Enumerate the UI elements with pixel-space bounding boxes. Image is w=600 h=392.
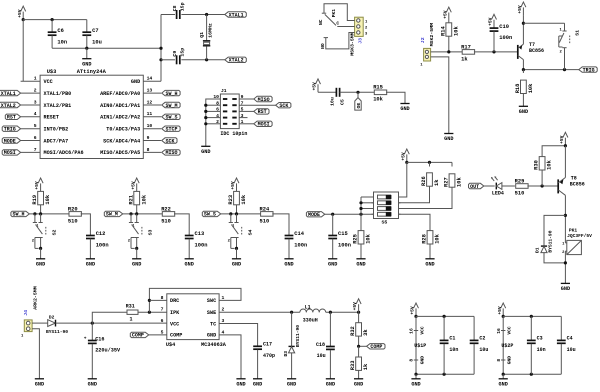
svg-text:510: 510 [260, 218, 270, 224]
svg-text:R22: R22 [161, 206, 171, 212]
svg-text:+5V: +5V [488, 17, 494, 26]
power +5V arrow [352, 299, 361, 312]
wire [174, 214, 189, 235]
wire [32, 322, 48, 324]
svg-text:10k: 10k [366, 233, 372, 243]
node MISO flag [254, 96, 272, 103]
svg-text:R28: R28 [422, 234, 428, 244]
svg-text:R21: R21 [128, 195, 134, 205]
svg-text:100n: 100n [338, 243, 351, 249]
svg-text:C8: C8 [172, 5, 178, 11]
svg-text:+5V: +5V [352, 302, 358, 311]
relay contact PK1 [318, 9, 339, 49]
svg-text:10n: 10n [57, 39, 67, 45]
svg-text:330uH: 330uH [303, 317, 318, 323]
svg-text:J1: J1 [221, 88, 227, 94]
wire [221, 212, 262, 215]
wire J1 left bus [204, 99, 220, 146]
svg-text:+5V: +5V [130, 181, 136, 190]
svg-text:10k: 10k [241, 194, 247, 204]
node MOSI flag [2, 150, 20, 157]
svg-text:XTAL1/PB0: XTAL1/PB0 [44, 91, 72, 97]
ground [185, 259, 194, 268]
resistor R31 [92, 303, 167, 323]
node OUT flag [469, 183, 484, 190]
svg-text:4: 4 [34, 111, 37, 117]
svg-text:MISO: MISO [166, 150, 178, 156]
svg-text:BC856: BC856 [570, 181, 585, 187]
svg-text:RST: RST [7, 115, 16, 121]
wire [239, 104, 275, 106]
svg-text:10k: 10k [141, 194, 147, 204]
svg-text:MISO/ADC5/PA5: MISO/ADC5/PA5 [100, 150, 140, 156]
svg-text:BYS11-90: BYS11-90 [295, 325, 301, 347]
svg-text:COMP: COMP [170, 333, 182, 339]
ground [253, 379, 262, 388]
ground [354, 379, 363, 388]
svg-text:IPK: IPK [170, 310, 180, 316]
resistor R24 [260, 206, 274, 224]
svg-text:C15: C15 [338, 231, 348, 237]
connector J3 MSK3-5MM [350, 17, 368, 56]
connector J4 ARK2-5MM [21, 286, 38, 338]
resistor R19 [32, 191, 51, 214]
svg-text:R19: R19 [32, 195, 38, 205]
wire [52, 47, 161, 50]
wire [484, 185, 495, 187]
ground [35, 379, 44, 388]
wire [474, 50, 518, 53]
ground [561, 283, 570, 292]
capacitor C17 [253, 342, 275, 379]
svg-text:SW_S: SW_S [166, 115, 178, 121]
svg-text:SW_H: SW_H [13, 212, 25, 218]
svg-text:10k: 10k [547, 159, 553, 169]
node RST flag [254, 109, 269, 116]
svg-text:VCC: VCC [170, 321, 179, 327]
resistor R23 [228, 191, 247, 214]
svg-text:GND: GND [132, 261, 141, 267]
svg-text:100n: 100n [96, 243, 109, 249]
svg-text:IDC 10pin: IDC 10pin [220, 131, 247, 137]
svg-text:1k: 1k [461, 56, 468, 62]
svg-text:GND: GND [284, 261, 293, 267]
capacitor C16 [84, 323, 121, 379]
node OE flag [355, 92, 362, 110]
svg-text:SW_S: SW_S [204, 212, 216, 218]
wire [81, 214, 91, 235]
svg-text:SW_M: SW_M [106, 212, 118, 218]
svg-text:U$2P: U$2P [501, 343, 513, 349]
svg-text:GND: GND [207, 333, 216, 339]
ground [86, 259, 95, 268]
svg-text:10u: 10u [317, 353, 326, 359]
node MODE flag [2, 138, 20, 145]
svg-text:AREF/ADC0/PA0: AREF/ADC0/PA0 [100, 91, 140, 97]
switch S1 [559, 23, 581, 69]
svg-text:C18: C18 [316, 342, 325, 348]
wire [523, 22, 564, 24]
svg-text:GND: GND [36, 261, 45, 267]
svg-text:MODE: MODE [4, 138, 16, 144]
svg-text:GND: GND [411, 381, 420, 387]
svg-text:LED4: LED4 [492, 190, 504, 196]
svg-text:JQC3FF/5V: JQC3FF/5V [567, 233, 592, 239]
svg-text:+5V: +5V [497, 306, 503, 315]
svg-text:10k: 10k [528, 83, 534, 93]
relay coil PK1 [562, 227, 592, 255]
wire [564, 214, 567, 243]
svg-text:220u/35V: 220u/35V [95, 348, 121, 354]
ground [519, 106, 528, 115]
svg-text:C6: C6 [57, 28, 63, 34]
svg-text:OE: OE [356, 103, 362, 109]
wire [149, 299, 166, 301]
svg-text:TRIG: TRIG [4, 127, 16, 133]
svg-text:RESET: RESET [44, 115, 59, 121]
wire [272, 214, 289, 235]
capacitor C5 [330, 88, 346, 106]
connector J2 MSK2-5MM [420, 23, 435, 68]
capacitor C4 [557, 316, 576, 374]
svg-text:C17: C17 [263, 342, 272, 348]
capacitor C9 [172, 48, 186, 65]
svg-text:+5V: +5V [17, 9, 23, 18]
svg-text:PK1: PK1 [331, 9, 337, 18]
node SCK flag [162, 138, 177, 145]
wire S5 left bus [359, 197, 373, 214]
power +5V arrow [497, 303, 506, 318]
svg-text:C10: C10 [499, 24, 509, 30]
svg-text:BYS11-90: BYS11-90 [547, 230, 553, 252]
svg-text:U$1P: U$1P [414, 343, 426, 349]
svg-text:16: 16 [496, 328, 502, 334]
wire [326, 33, 355, 49]
svg-text:+5V: +5V [517, 5, 523, 14]
svg-text:DRC: DRC [170, 298, 179, 304]
wire [239, 98, 254, 100]
svg-text:AIN0/ADC1/PA1: AIN0/ADC1/PA1 [100, 103, 140, 109]
svg-text:J4: J4 [23, 310, 29, 316]
node STCP flag [162, 126, 180, 133]
svg-text:12: 12 [147, 99, 153, 105]
node MOSI flag [254, 121, 272, 128]
capacitor C13 [185, 231, 208, 259]
node RST flag [5, 114, 20, 121]
power +5V arrow [488, 14, 497, 27]
node SW_M flag [162, 102, 180, 109]
node COMP flag [357, 344, 385, 351]
resistor R28 [399, 214, 441, 259]
svg-text:GND: GND [82, 61, 91, 67]
wire [32, 329, 39, 379]
svg-text:15p: 15p [180, 2, 186, 11]
svg-text:GND: GND [561, 286, 570, 292]
power +5V arrow [442, 7, 451, 20]
svg-text:100n: 100n [195, 243, 208, 249]
op-amp U$2P power pins [496, 316, 514, 374]
power +5V arrow [559, 132, 568, 147]
svg-text:GND: GND [356, 261, 365, 267]
svg-text:ATtiny24A: ATtiny24A [77, 69, 107, 75]
svg-text:C13: C13 [195, 231, 205, 237]
svg-text:GND: GND [287, 381, 296, 387]
node SW_S flag [162, 114, 180, 121]
ground [287, 379, 296, 388]
svg-text:C3: C3 [537, 336, 543, 342]
svg-text:8: 8 [409, 359, 415, 362]
capacitor C18 [316, 312, 335, 379]
svg-text:5: 5 [34, 123, 37, 129]
svg-text:ARK2-5MM: ARK2-5MM [32, 286, 38, 310]
svg-text:AIN1/ADC2/PA2: AIN1/ADC2/PA2 [100, 115, 140, 121]
svg-text:C2: C2 [479, 336, 485, 342]
svg-text:SWC: SWC [207, 298, 216, 304]
svg-text:SCK/ADC4/PA4: SCK/ADC4/PA4 [103, 138, 140, 144]
node TRIG flag [579, 67, 597, 74]
svg-text:GND: GND [444, 136, 453, 142]
ground [400, 104, 409, 113]
svg-text:8: 8 [147, 147, 150, 153]
svg-text:+5V: +5V [230, 181, 236, 190]
svg-text:R26: R26 [421, 176, 427, 186]
wire [337, 26, 354, 28]
wire [136, 248, 138, 258]
svg-text:S3: S3 [148, 229, 154, 235]
svg-text:S5: S5 [382, 219, 388, 225]
svg-text:9: 9 [147, 135, 150, 141]
node XTAL2 [205, 57, 246, 64]
svg-text:MSK2-5MM: MSK2-5MM [429, 23, 435, 47]
svg-text:+5V: +5V [34, 181, 40, 190]
resistor R26 [399, 162, 441, 202]
svg-text:14: 14 [147, 76, 153, 82]
wire [386, 92, 405, 103]
node XTAL1 [205, 12, 246, 18]
svg-text:S4: S4 [248, 229, 254, 235]
svg-text:C12: C12 [96, 231, 106, 237]
svg-text:15p: 15p [180, 48, 186, 57]
wire [239, 117, 247, 119]
svg-text:10u: 10u [479, 347, 488, 353]
resistor R14 [440, 21, 459, 52]
svg-text:VCC: VCC [419, 326, 425, 335]
wire [527, 184, 557, 187]
capacitor C3 [527, 316, 546, 374]
svg-text:BC856: BC856 [529, 48, 544, 54]
svg-text:VCC: VCC [44, 79, 53, 85]
svg-text:10n: 10n [537, 347, 546, 353]
wire [40, 248, 42, 258]
wire [503, 315, 561, 318]
svg-text:XTAL2: XTAL2 [1, 103, 16, 109]
wire [522, 15, 525, 44]
svg-text:C4: C4 [567, 336, 573, 342]
svg-text:6: 6 [34, 135, 37, 141]
resistor R25 [353, 214, 372, 259]
svg-text:R24: R24 [260, 206, 270, 212]
svg-text:SW_H: SW_H [166, 91, 178, 97]
resistor R29 [515, 178, 529, 196]
svg-text:TC: TC [210, 321, 216, 327]
svg-text:+5V: +5V [312, 82, 318, 91]
ground [284, 259, 293, 268]
svg-text:10: 10 [147, 123, 153, 129]
svg-text:10k: 10k [453, 26, 459, 36]
capacitor C14 [285, 231, 308, 259]
svg-text:GND: GND [354, 381, 363, 387]
svg-text:1k: 1k [434, 179, 440, 186]
svg-text:470p: 470p [263, 353, 275, 359]
wire [407, 161, 452, 164]
svg-text:8: 8 [161, 295, 164, 301]
power +5V arrow [312, 79, 321, 92]
capacitor C6 [48, 20, 67, 49]
switch S5 DIP [372, 192, 401, 225]
svg-text:GND: GND [131, 79, 140, 85]
ground [236, 379, 245, 388]
svg-text:STCP: STCP [166, 127, 178, 133]
svg-text:R25: R25 [353, 234, 359, 244]
svg-text:3k: 3k [363, 329, 369, 336]
wire [340, 91, 375, 94]
wire DRC rail [148, 288, 241, 312]
wire [239, 123, 254, 125]
node TRIG flag [2, 126, 20, 133]
resistor R15 [373, 85, 386, 103]
resistor R32 [350, 312, 369, 346]
svg-text:BYS11-90: BYS11-90 [46, 329, 68, 335]
power +5V arrow [517, 2, 526, 15]
svg-text:10u: 10u [92, 39, 102, 45]
svg-text:NC: NC [318, 19, 324, 25]
power +5V supply arrow (top left) [17, 6, 26, 21]
svg-text:TRIG: TRIG [583, 67, 595, 73]
node MISO flag [162, 150, 180, 157]
svg-text:100n: 100n [294, 243, 307, 249]
svg-text:Q1: Q1 [199, 32, 205, 38]
node SW_H flag [162, 90, 180, 97]
svg-text:ADC7/PA7: ADC7/PA7 [44, 138, 69, 144]
svg-text:10u: 10u [567, 347, 576, 353]
node XTAL1 flag [0, 90, 21, 97]
svg-text:GND: GND [236, 381, 245, 387]
ground [82, 48, 91, 67]
svg-text:R30: R30 [534, 160, 540, 170]
svg-text:R27: R27 [444, 177, 450, 187]
resistor R30 [534, 157, 553, 186]
svg-text:C5: C5 [340, 99, 346, 105]
svg-text:R29: R29 [515, 178, 525, 184]
wire [325, 213, 374, 216]
svg-text:SWE: SWE [207, 310, 216, 316]
op-amp U3 microcontroller ATtiny24A [21, 69, 161, 158]
wire [564, 251, 567, 283]
svg-text:GND: GND [519, 109, 528, 115]
wire [414, 373, 474, 376]
svg-text:10k: 10k [45, 194, 51, 204]
svg-text:GND: GND [425, 261, 434, 267]
svg-text:10u: 10u [330, 97, 336, 106]
op-amp U$1P power pins [409, 316, 427, 374]
svg-text:J2: J2 [420, 37, 426, 43]
svg-text:+5V: +5V [559, 135, 565, 144]
node COMP flag [130, 332, 167, 339]
node XTAL2 flag [0, 102, 21, 109]
capacitor C1 [440, 316, 459, 374]
node SW_H flag [11, 211, 29, 218]
svg-text:R14: R14 [440, 26, 446, 36]
capacitor C7 [82, 20, 101, 49]
ground [328, 259, 337, 268]
svg-text:11: 11 [147, 111, 153, 117]
svg-text:GND: GND [507, 356, 513, 365]
svg-text:COMP: COMP [370, 344, 382, 350]
power +5V arrow [410, 303, 419, 318]
svg-text:SW_M: SW_M [166, 103, 178, 109]
svg-text:GND: GND [86, 261, 95, 267]
svg-text:GND: GND [499, 381, 508, 387]
svg-text:100n: 100n [499, 35, 512, 41]
svg-text:R33: R33 [350, 360, 356, 370]
svg-text:8: 8 [496, 359, 502, 362]
capacitor C15 [328, 214, 351, 259]
wire [431, 50, 463, 53]
connector J1 IDC 10pin [213, 88, 247, 137]
wire [324, 4, 355, 21]
svg-text:GND: GND [326, 381, 335, 387]
svg-text:510: 510 [161, 218, 171, 224]
svg-text:U$4: U$4 [166, 342, 175, 348]
resistor R17 [461, 44, 475, 62]
ground [425, 259, 434, 268]
svg-text:PK1: PK1 [569, 227, 578, 233]
op-amp U4 MC34063A [161, 294, 227, 348]
svg-text:7: 7 [161, 307, 164, 313]
svg-text:GND: GND [88, 381, 97, 387]
svg-text:C9: C9 [172, 51, 178, 57]
inductor L1 [300, 304, 326, 323]
wire [522, 68, 579, 71]
svg-text:MSK3-5MM: MSK3-5MM [350, 32, 356, 56]
capacitor C8 [172, 2, 186, 19]
svg-text:RST: RST [258, 109, 267, 115]
diode LED4 [491, 176, 504, 196]
power +5V arrow [34, 178, 43, 191]
svg-text:R17: R17 [461, 44, 471, 50]
svg-text:GND: GND [253, 381, 262, 387]
svg-text:+5V: +5V [442, 10, 448, 19]
svg-text:3: 3 [34, 99, 37, 105]
wire [415, 374, 417, 379]
svg-text:GND: GND [35, 381, 44, 387]
svg-text:C1: C1 [449, 336, 455, 342]
diode D3 [283, 312, 301, 379]
transistor T7 BC856 [518, 42, 544, 70]
svg-text:XTAL1: XTAL1 [229, 12, 244, 18]
svg-text:MODE: MODE [308, 212, 320, 218]
switch S3 [128, 214, 154, 250]
resistor R33 [350, 346, 369, 379]
resistor R27 [399, 162, 463, 208]
wire [22, 20, 24, 82]
svg-text:+: + [84, 337, 87, 342]
diode D2 [46, 314, 68, 335]
ground [411, 379, 420, 388]
wire [399, 162, 407, 197]
svg-text:J3: J3 [357, 38, 363, 44]
svg-text:2: 2 [34, 88, 37, 94]
